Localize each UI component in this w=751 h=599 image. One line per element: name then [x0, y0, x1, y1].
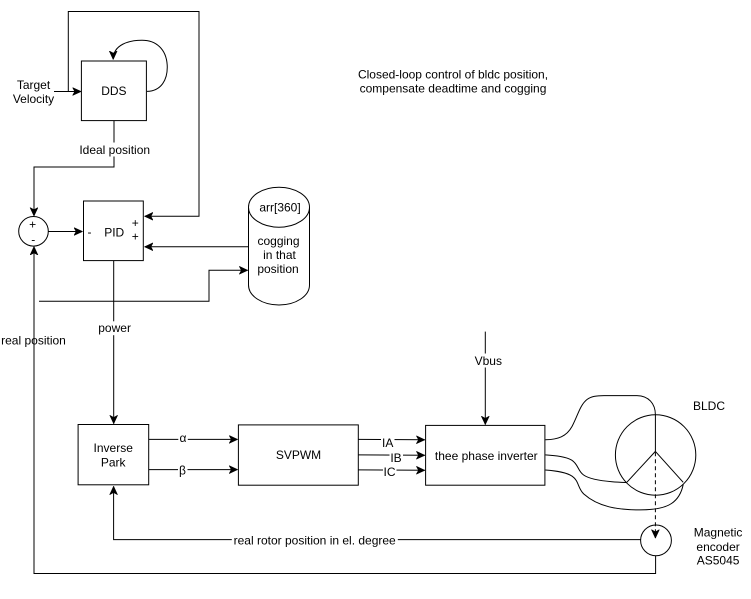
- svg-text:in that: in that: [263, 248, 296, 262]
- svg-text:DDS: DDS: [101, 84, 126, 98]
- label Ideal position: [78, 143, 151, 157]
- summing junction: [19, 217, 49, 247]
- svg-text:IC: IC: [384, 465, 396, 479]
- cylinder arr[360]: [249, 187, 310, 305]
- wire IA: [358, 438, 424, 440]
- block three phase inverter: [426, 425, 545, 485]
- svg-text:compensate deadtime and coggin: compensate deadtime and cogging: [360, 81, 547, 95]
- dashed shaft link motor to encoder: [654, 452, 656, 538]
- svg-text:encoder: encoder: [696, 540, 739, 554]
- svg-text:cogging: cogging: [257, 234, 299, 248]
- svg-text:IB: IB: [390, 451, 401, 465]
- svg-text:β: β: [179, 464, 186, 478]
- svg-text:α: α: [180, 431, 187, 445]
- block SVPWM: [238, 425, 358, 485]
- encoder circle: [641, 525, 672, 556]
- DDS self-loop: [113, 40, 167, 91]
- svg-text:-: -: [31, 233, 35, 247]
- svg-text:Park: Park: [101, 456, 127, 470]
- svg-text:-: -: [88, 225, 92, 239]
- wire: summing junction to PID: [48, 231, 82, 233]
- motor BLDC: [615, 415, 695, 495]
- svg-text:Vbus: Vbus: [475, 354, 502, 368]
- svg-text:+: +: [29, 217, 36, 231]
- label power: [96, 321, 134, 335]
- label real rotor position in el. degree: [232, 533, 398, 548]
- wire alpha: [149, 438, 238, 440]
- block Inverse Park: [78, 425, 149, 485]
- wire: DDS down to summing junction: [34, 121, 114, 216]
- svg-text:Target: Target: [17, 78, 51, 92]
- wire beta: [149, 469, 238, 471]
- wire Vbus: [484, 332, 486, 425]
- svg-text:SVPWM: SVPWM: [276, 448, 321, 462]
- block DDS: [81, 61, 146, 121]
- svg-text:real rotor position in el. deg: real rotor position in el. degree: [234, 534, 396, 548]
- phase wire A: [545, 396, 655, 440]
- wire: cylinder to PID: [145, 246, 249, 248]
- phase wire B: [545, 455, 627, 483]
- svg-text:arr[360]: arr[360]: [259, 200, 300, 214]
- svg-text:position: position: [257, 262, 298, 276]
- wire: feedback loop from input node over top into PID right edge: [68, 12, 199, 217]
- svg-text:IA: IA: [382, 436, 393, 450]
- svg-text:+: +: [132, 230, 139, 244]
- wire: encoder bottom loop to summing junction: [34, 247, 656, 574]
- wire IB: [358, 454, 424, 456]
- wire: Target Velocity into DDS: [54, 91, 81, 93]
- svg-text:Closed-loop control of bldc po: Closed-loop control of bldc position,: [358, 67, 548, 81]
- svg-text:AS5045: AS5045: [697, 554, 740, 568]
- svg-text:Inverse: Inverse: [94, 441, 134, 455]
- block PID: [84, 201, 144, 261]
- label real position: [0, 335, 67, 350]
- svg-text:Ideal position: Ideal position: [79, 143, 150, 157]
- wire: real position branch to cylinder: [39, 270, 248, 301]
- svg-text:PID: PID: [104, 225, 124, 239]
- wire IC: [358, 469, 424, 471]
- wire: PID to Inverse Park (power): [113, 261, 115, 424]
- svg-text:Velocity: Velocity: [13, 92, 54, 106]
- svg-text:+: +: [132, 216, 139, 230]
- svg-text:Magnetic: Magnetic: [694, 526, 743, 540]
- svg-text:power: power: [98, 321, 131, 335]
- wire: encoder to Inverse Park bottom: [114, 486, 641, 539]
- svg-text:thee phase inverter: thee phase inverter: [435, 449, 538, 463]
- svg-text:BLDC: BLDC: [693, 399, 725, 413]
- phase wire C: [545, 470, 683, 510]
